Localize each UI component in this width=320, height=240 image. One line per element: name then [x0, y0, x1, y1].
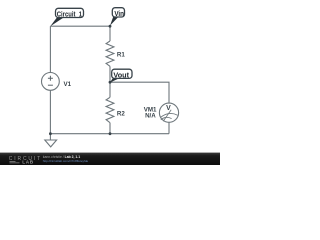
- junction R2 bottom node: [109, 132, 112, 135]
- node Vin junction: [109, 25, 112, 28]
- svg-text:V1: V1: [64, 81, 72, 88]
- svg-text:R1: R1: [117, 52, 125, 59]
- svg-text:http://circuitlab.com/c/7n8flu: http://circuitlab.com/c/7n8fluteyfde: [43, 159, 89, 163]
- voltmeter VM1: [144, 103, 179, 122]
- node label Circuit_1: [50, 8, 83, 26]
- wire R1 to Vout node: [109, 66, 111, 82]
- wire V1 bottom to ground node: [49, 90, 51, 133]
- voltage source V1: [42, 73, 72, 91]
- footer logo CIRCUIT LAB: [9, 156, 42, 164]
- node label Vout: [110, 69, 132, 82]
- svg-text:Circuit_1: Circuit_1: [57, 9, 82, 18]
- wire Vout node to R2: [109, 82, 111, 97]
- wire left vertical: [49, 26, 51, 72]
- wire top horizontal: [50, 25, 110, 27]
- ground: [45, 134, 57, 147]
- resistor R1: [106, 41, 125, 66]
- wire Vin to R1: [109, 26, 111, 41]
- svg-text:Vout: Vout: [113, 70, 129, 79]
- node label Vin: [110, 8, 125, 26]
- wire bottom horizontal: [50, 133, 169, 135]
- svg-text:N/A: N/A: [145, 113, 156, 120]
- node Vout junction: [109, 81, 112, 84]
- wire Vout node to voltmeter: [110, 82, 169, 103]
- svg-text:R2: R2: [117, 111, 125, 118]
- wire R2 to bottom: [109, 123, 111, 134]
- resistor R2: [106, 97, 125, 122]
- svg-text:Vin: Vin: [114, 9, 124, 18]
- wire voltmeter bottom: [168, 122, 170, 133]
- footer bar: [0, 153, 220, 165]
- svg-text:LAB: LAB: [22, 159, 33, 164]
- junction ground node: [49, 132, 52, 135]
